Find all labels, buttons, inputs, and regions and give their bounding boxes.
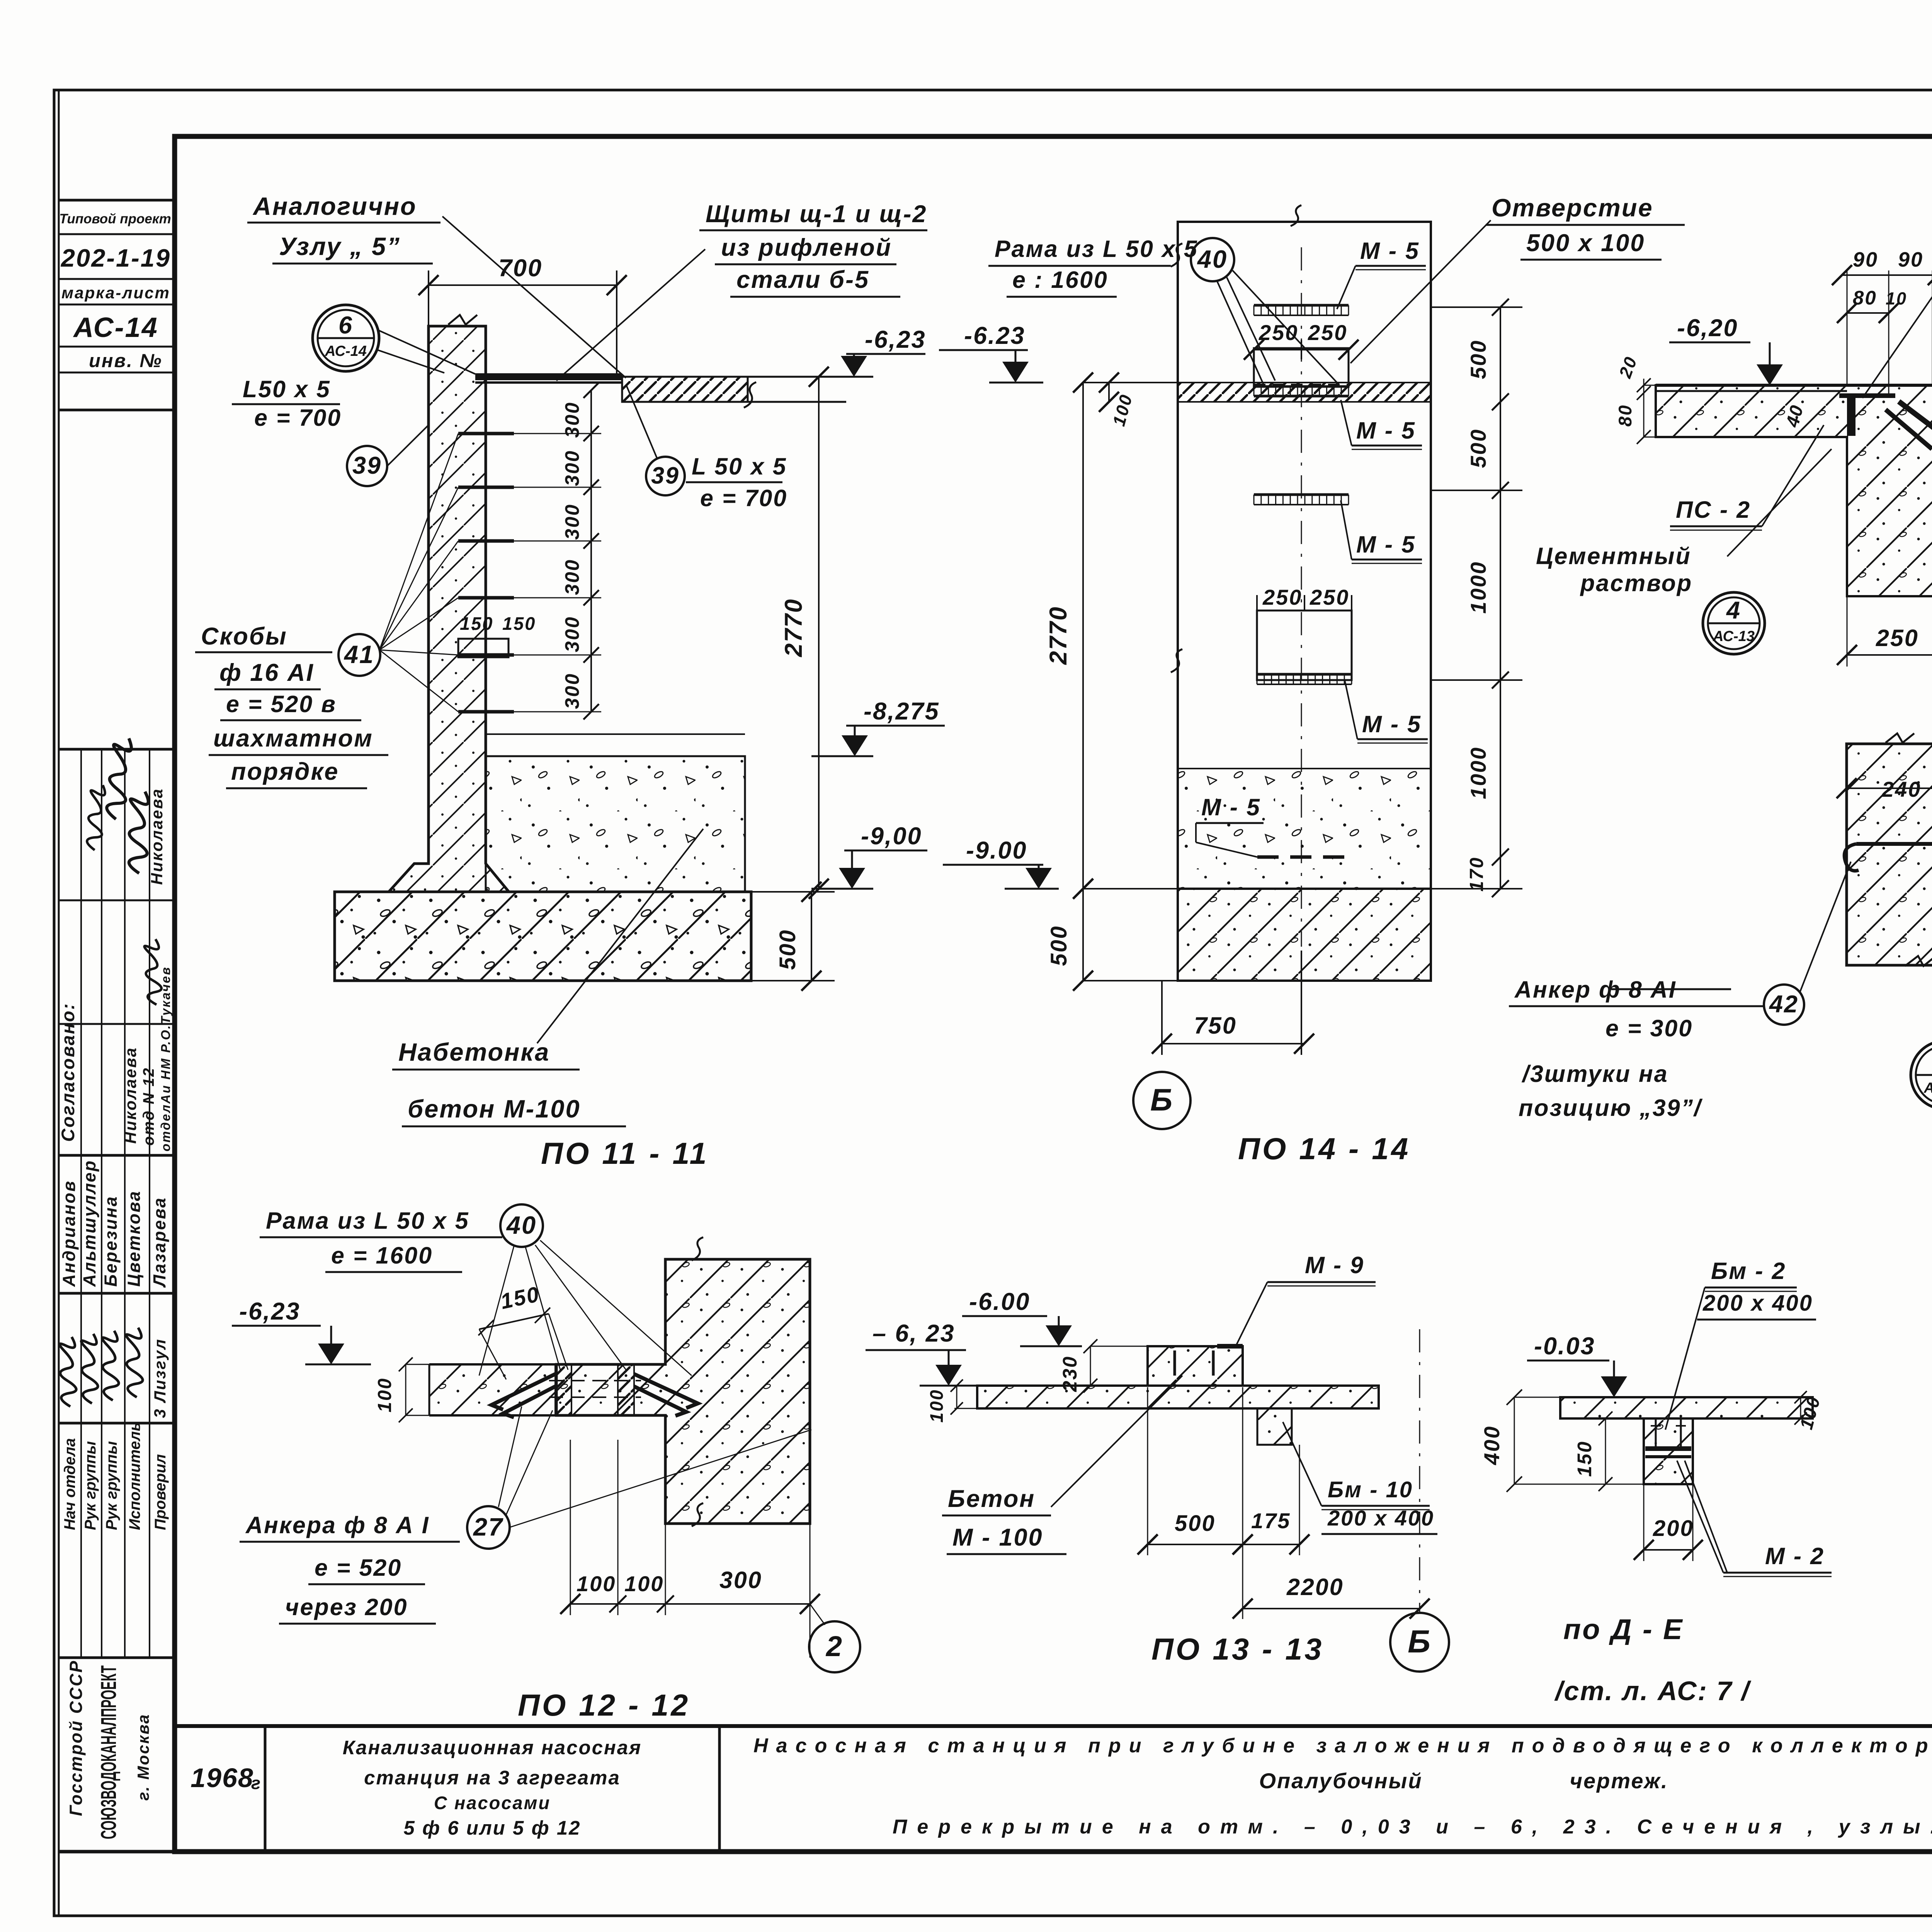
svg-text:Канализационная насосная: Канализационная насосная xyxy=(343,1736,642,1759)
svg-text:через 200: через 200 xyxy=(285,1594,408,1620)
svg-text:Б: Б xyxy=(1150,1083,1173,1117)
svg-text:Цементный: Цементный xyxy=(1536,543,1691,569)
svg-text:ПС - 2: ПС - 2 xyxy=(1676,497,1751,523)
svg-text:Типовой проект: Типовой проект xyxy=(59,211,171,226)
svg-text:е = 700: е = 700 xyxy=(254,405,342,431)
svg-text:М - 2: М - 2 xyxy=(1765,1543,1825,1569)
svg-text:-6.23: -6.23 xyxy=(964,322,1026,349)
svg-text:100: 100 xyxy=(926,1389,947,1422)
svg-text:Лазарева: Лазарева xyxy=(150,1197,169,1288)
svg-text:Бм - 2: Бм - 2 xyxy=(1711,1258,1786,1284)
svg-text:100: 100 xyxy=(624,1571,664,1596)
svg-text:е = 520: е = 520 xyxy=(315,1554,402,1581)
svg-text:Рама из L 50 х 5: Рама из L 50 х 5 xyxy=(995,236,1198,262)
svg-text:бетон М-100: бетон М-100 xyxy=(408,1095,581,1123)
svg-text:М - 5: М - 5 xyxy=(1356,531,1416,558)
svg-text:42: 42 xyxy=(1769,991,1799,1018)
svg-text:г: г xyxy=(251,1773,262,1793)
svg-text:500 х 100: 500 х 100 xyxy=(1526,230,1645,257)
svg-text:250: 250 xyxy=(1262,585,1302,609)
svg-text:150: 150 xyxy=(460,613,493,634)
svg-text:е = 520 в: е = 520 в xyxy=(226,691,337,717)
svg-text:е = 1600: е = 1600 xyxy=(331,1242,433,1269)
svg-text:250: 250 xyxy=(1876,625,1919,651)
svg-text:40: 40 xyxy=(1197,245,1228,273)
svg-text:станция на 3 агрегата: станция на 3 агрегата xyxy=(364,1767,621,1789)
svg-text:Б: Б xyxy=(1408,1624,1432,1660)
svg-text:Согласовано:: Согласовано: xyxy=(58,1002,78,1142)
svg-text:С насосами: С насосами xyxy=(434,1793,551,1813)
svg-text:90: 90 xyxy=(1853,248,1878,271)
svg-text:шахматном: шахматном xyxy=(213,725,373,752)
svg-text:из рифленой: из рифленой xyxy=(721,234,892,261)
svg-text:240: 240 xyxy=(1881,777,1921,801)
svg-text:2: 2 xyxy=(825,1630,843,1662)
svg-text:700: 700 xyxy=(498,255,543,282)
svg-text:Березина: Березина xyxy=(101,1196,121,1287)
svg-text:порядке: порядке xyxy=(231,758,339,785)
svg-text:300: 300 xyxy=(561,401,583,438)
svg-text:250: 250 xyxy=(1308,320,1347,345)
svg-text:27: 27 xyxy=(473,1513,503,1541)
svg-text:отделАи НМ Р.О.Тукачев: отделАи НМ Р.О.Тукачев xyxy=(158,966,173,1151)
svg-text:150: 150 xyxy=(502,613,536,634)
svg-text:300: 300 xyxy=(561,616,583,652)
svg-text:Проверил: Проверил xyxy=(152,1454,169,1530)
svg-text:80: 80 xyxy=(1853,287,1877,309)
svg-text:1968: 1968 xyxy=(190,1763,254,1793)
svg-text:Бетон: Бетон xyxy=(948,1485,1035,1512)
svg-text:Скобы: Скобы xyxy=(201,623,287,650)
svg-text:2770: 2770 xyxy=(780,598,807,657)
svg-text:е = 300: е = 300 xyxy=(1605,1015,1693,1041)
svg-text:2770: 2770 xyxy=(1045,606,1072,665)
svg-text:300: 300 xyxy=(561,450,583,486)
svg-text:L 50 х 5: L 50 х 5 xyxy=(692,453,787,480)
svg-text:Насосная станция при глу: Насосная станция при глубине заложения п… xyxy=(753,1735,1932,1757)
svg-text:Анкера ф 8 А I: Анкера ф 8 А I xyxy=(245,1512,430,1538)
svg-text:Андрианов: Андрианов xyxy=(59,1180,79,1287)
svg-text:Узлу „ 5”: Узлу „ 5” xyxy=(279,232,401,260)
svg-text:-6.00: -6.00 xyxy=(969,1288,1031,1315)
svg-text:АС-14: АС-14 xyxy=(73,312,158,343)
svg-text:100: 100 xyxy=(374,1378,395,1413)
svg-text:-9.00: -9.00 xyxy=(966,837,1027,864)
svg-text:-8,275: -8,275 xyxy=(864,698,940,725)
svg-text:г. Москва: г. Москва xyxy=(134,1713,152,1801)
svg-text:инв. №: инв. № xyxy=(89,350,163,371)
svg-text:Николаева: Николаева xyxy=(121,1047,139,1144)
svg-text:стали б-5: стали б-5 xyxy=(736,266,869,293)
svg-text:М - 100: М - 100 xyxy=(952,1524,1043,1551)
svg-text:5 ф 6 или 5 ф 12: 5 ф 6 или 5 ф 12 xyxy=(403,1817,581,1839)
svg-text:Набетонка: Набетонка xyxy=(398,1038,550,1066)
svg-text:Госстрой СССР: Госстрой СССР xyxy=(66,1660,86,1816)
svg-text:М - 5: М - 5 xyxy=(1362,711,1422,737)
svg-text:/3штуки на: /3штуки на xyxy=(1521,1061,1668,1087)
svg-text:чертеж.: чертеж. xyxy=(1570,1769,1668,1793)
svg-text:300: 300 xyxy=(561,503,583,540)
svg-text:Рук группы: Рук группы xyxy=(82,1441,99,1530)
svg-text:500: 500 xyxy=(1466,429,1490,468)
svg-text:200 х 400: 200 х 400 xyxy=(1327,1506,1434,1530)
svg-text:АС-14: АС-14 xyxy=(325,343,367,359)
svg-text:– 6, 23: – 6, 23 xyxy=(872,1320,955,1347)
svg-text:СОЮЗВОДОКАНАЛПРОЕКТ: СОЮЗВОДОКАНАЛПРОЕКТ xyxy=(96,1665,121,1839)
svg-text:ПО 11 - 11: ПО 11 - 11 xyxy=(541,1136,709,1170)
svg-text:230: 230 xyxy=(1059,1355,1081,1392)
svg-text:е : 1600: е : 1600 xyxy=(1012,267,1108,293)
svg-text:М - 5: М - 5 xyxy=(1356,417,1416,444)
svg-text:400: 400 xyxy=(1480,1425,1504,1465)
svg-text:80: 80 xyxy=(1615,404,1635,427)
svg-text:250: 250 xyxy=(1310,585,1349,609)
svg-text:марка-лист: марка-лист xyxy=(61,284,170,302)
svg-text:ПО 14 - 14: ПО 14 - 14 xyxy=(1238,1131,1410,1166)
svg-text:по Д - Е: по Д - Е xyxy=(1563,1613,1684,1645)
svg-text:М - 5: М - 5 xyxy=(1201,794,1261,820)
svg-text:Исполнитель: Исполнитель xyxy=(126,1422,143,1530)
svg-text:Бм - 10: Бм - 10 xyxy=(1328,1477,1413,1502)
svg-text:-6,23: -6,23 xyxy=(865,326,926,353)
svg-text:170: 170 xyxy=(1466,857,1487,892)
svg-text:-0.03: -0.03 xyxy=(1534,1333,1595,1360)
svg-text:3 Лизгул: 3 Лизгул xyxy=(151,1338,169,1418)
svg-text:L50 х 5: L50 х 5 xyxy=(243,376,331,402)
svg-text:ПО 12 - 12: ПО 12 - 12 xyxy=(518,1688,690,1722)
svg-text:Альтшуллер: Альтшуллер xyxy=(80,1160,99,1287)
svg-text:39: 39 xyxy=(352,452,382,479)
svg-text:/ст. л. АС: 7 /: /ст. л. АС: 7 / xyxy=(1554,1676,1752,1706)
svg-text:Отверстие: Отверстие xyxy=(1492,194,1653,222)
svg-text:40: 40 xyxy=(506,1211,537,1239)
svg-text:1000: 1000 xyxy=(1466,747,1490,799)
svg-text:-6,23: -6,23 xyxy=(239,1298,301,1325)
svg-text:1000: 1000 xyxy=(1466,561,1490,614)
svg-text:Рук группы: Рук группы xyxy=(103,1441,120,1530)
svg-text:100: 100 xyxy=(577,1571,616,1596)
svg-text:500: 500 xyxy=(775,929,800,970)
svg-text:300: 300 xyxy=(561,559,583,595)
svg-text:-6,20: -6,20 xyxy=(1677,315,1738,342)
svg-text:500: 500 xyxy=(1046,925,1071,966)
svg-text:е = 700: е = 700 xyxy=(700,485,787,511)
svg-text:Нач отдела: Нач отдела xyxy=(61,1438,78,1530)
svg-text:6: 6 xyxy=(338,312,353,339)
svg-text:150: 150 xyxy=(1573,1440,1595,1477)
svg-text:Рама из L 50 х 5: Рама из L 50 х 5 xyxy=(266,1207,469,1234)
svg-text:АС-13: АС-13 xyxy=(1713,628,1755,645)
svg-text:200 х 400: 200 х 400 xyxy=(1702,1291,1813,1316)
svg-text:раствор: раствор xyxy=(1580,570,1692,596)
svg-text:М - 9: М - 9 xyxy=(1305,1252,1364,1278)
svg-text:Щиты щ-1 и щ-2: Щиты щ-1 и щ-2 xyxy=(706,201,927,228)
svg-text:ПО 13 - 13: ПО 13 - 13 xyxy=(1151,1632,1324,1666)
svg-text:500: 500 xyxy=(1466,340,1490,379)
svg-text:90: 90 xyxy=(1898,248,1923,271)
svg-text:500: 500 xyxy=(1175,1511,1216,1536)
svg-text:175: 175 xyxy=(1251,1509,1291,1533)
svg-text:2200: 2200 xyxy=(1286,1574,1344,1600)
svg-text:Цветкова: Цветкова xyxy=(124,1190,144,1287)
svg-text:750: 750 xyxy=(1194,1012,1237,1039)
svg-text:202-1-19: 202-1-19 xyxy=(60,244,171,272)
svg-text:Николаева: Николаева xyxy=(148,788,166,885)
svg-text:4: 4 xyxy=(1726,597,1741,624)
svg-text:39: 39 xyxy=(651,462,680,488)
svg-text:250: 250 xyxy=(1259,320,1298,345)
svg-text:ф 16 АI: ф 16 АI xyxy=(219,659,314,686)
svg-text:41: 41 xyxy=(344,640,374,668)
svg-text:АС-14: АС-14 xyxy=(1923,1080,1932,1096)
svg-text:позицию „39”/: позицию „39”/ xyxy=(1519,1095,1703,1121)
svg-text:300: 300 xyxy=(719,1567,762,1593)
svg-text:200: 200 xyxy=(1653,1516,1694,1541)
svg-text:М - 5: М - 5 xyxy=(1360,238,1420,264)
svg-text:Аналогично: Аналогично xyxy=(252,192,417,220)
svg-text:отд N 12: отд N 12 xyxy=(140,1067,157,1146)
svg-text:300: 300 xyxy=(561,673,583,709)
svg-text:Опалубочный: Опалубочный xyxy=(1259,1769,1422,1793)
svg-text:10: 10 xyxy=(1886,289,1907,308)
svg-text:-9,00: -9,00 xyxy=(861,823,922,850)
